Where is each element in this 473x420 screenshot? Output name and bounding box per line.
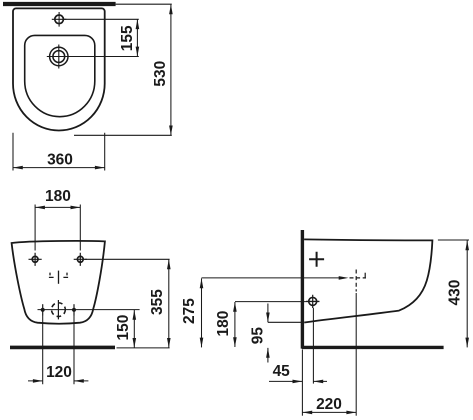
wire leader through drain to 150 dim — [38, 309, 140, 311]
faucet hole (top view, concentric circles with cross) — [50, 47, 68, 65]
svg-text:220: 220 — [316, 396, 342, 413]
bidet inner basin outline (top view) — [25, 35, 95, 116]
bidet outline (front view) — [12, 241, 105, 324]
wire 220 extension line from faucet mark down — [355, 293, 357, 416]
supply hole (side view, circle with cross) — [309, 297, 317, 305]
svg-text:45: 45 — [273, 363, 291, 380]
center mark (front view) — [58, 271, 60, 284]
dimension 355 line — [168, 259, 170, 347]
bidet outer outline (top view) — [13, 8, 105, 130]
svg-text:355: 355 — [149, 289, 166, 315]
svg-text:155: 155 — [119, 25, 136, 51]
wall bar (top view) — [3, 2, 116, 6]
svg-text:180: 180 — [215, 311, 232, 337]
wire extension line at bidet bottom for 530 — [74, 134, 172, 136]
dimension 120 line with outside arrows — [28, 380, 88, 382]
fixing hole left (front view) — [32, 256, 38, 262]
dimension 150 line — [133, 310, 135, 348]
drain hole (front view, dashed circle with cross) — [52, 303, 66, 317]
wire 95 extension line to underside — [268, 321, 303, 323]
supply hole (top view, small circle with cross) — [55, 15, 64, 24]
svg-text:530: 530 — [152, 61, 169, 87]
wire 275 extension with leader arrow to faucet mark — [202, 277, 342, 279]
wire drain extension below (for 45) — [312, 308, 314, 384]
floor datum line (front view, thick) — [10, 346, 115, 350]
dimension 220 line — [302, 411, 356, 413]
wall line (side view, thick) — [301, 230, 304, 349]
dimension 180 line (side) — [234, 302, 236, 347]
svg-text:360: 360 — [47, 151, 73, 168]
wire thin floor extension to 355 dim — [117, 347, 170, 349]
svg-text:275: 275 — [181, 298, 198, 324]
wire leader from faucet hole to 155 dim — [69, 56, 139, 58]
drain fixing cross left (front view) — [41, 308, 45, 312]
wire extension line from wall bar to 530 dim — [116, 3, 172, 5]
bidet profile (side view) — [304, 239, 432, 322]
dimension 120 extension lines — [43, 316, 74, 385]
fixing hole right (front view) — [77, 256, 83, 262]
svg-text:95: 95 — [249, 327, 266, 345]
floor datum line (side view, thick) — [302, 346, 444, 349]
dimension 430 line — [466, 241, 468, 348]
dimension 45 with outside arrows — [269, 380, 327, 382]
wire leader from right fixing hole to 355 dim — [85, 258, 170, 260]
wire leader from supply hole to 155 dim — [64, 18, 139, 20]
svg-text:180: 180 — [45, 188, 71, 205]
wire 430 top extension line — [438, 239, 469, 241]
dimension 360 extension lines — [13, 133, 105, 171]
faucet center mark (side view, dashed cross) — [355, 270, 357, 292]
wire leader from 180 dim to supply hole — [235, 301, 320, 303]
dimension 155 line — [136, 19, 138, 56]
wire wall extension below floor (for 45/220) — [301, 350, 303, 416]
dimension 180 line (front) — [35, 206, 80, 208]
drain fixing cross right (front view) — [72, 308, 76, 312]
dimension 180 extension lines (front) — [35, 205, 80, 251]
svg-text:430: 430 — [447, 280, 464, 306]
svg-text:120: 120 — [46, 364, 72, 381]
fixing hole cross (side view) — [309, 252, 324, 267]
dimension 530 line — [170, 5, 172, 136]
svg-text:150: 150 — [115, 315, 132, 341]
dimension 95 lines with outside arrows — [267, 304, 269, 363]
dimension 275 line — [201, 278, 203, 347]
dimension 360 line — [13, 167, 105, 169]
